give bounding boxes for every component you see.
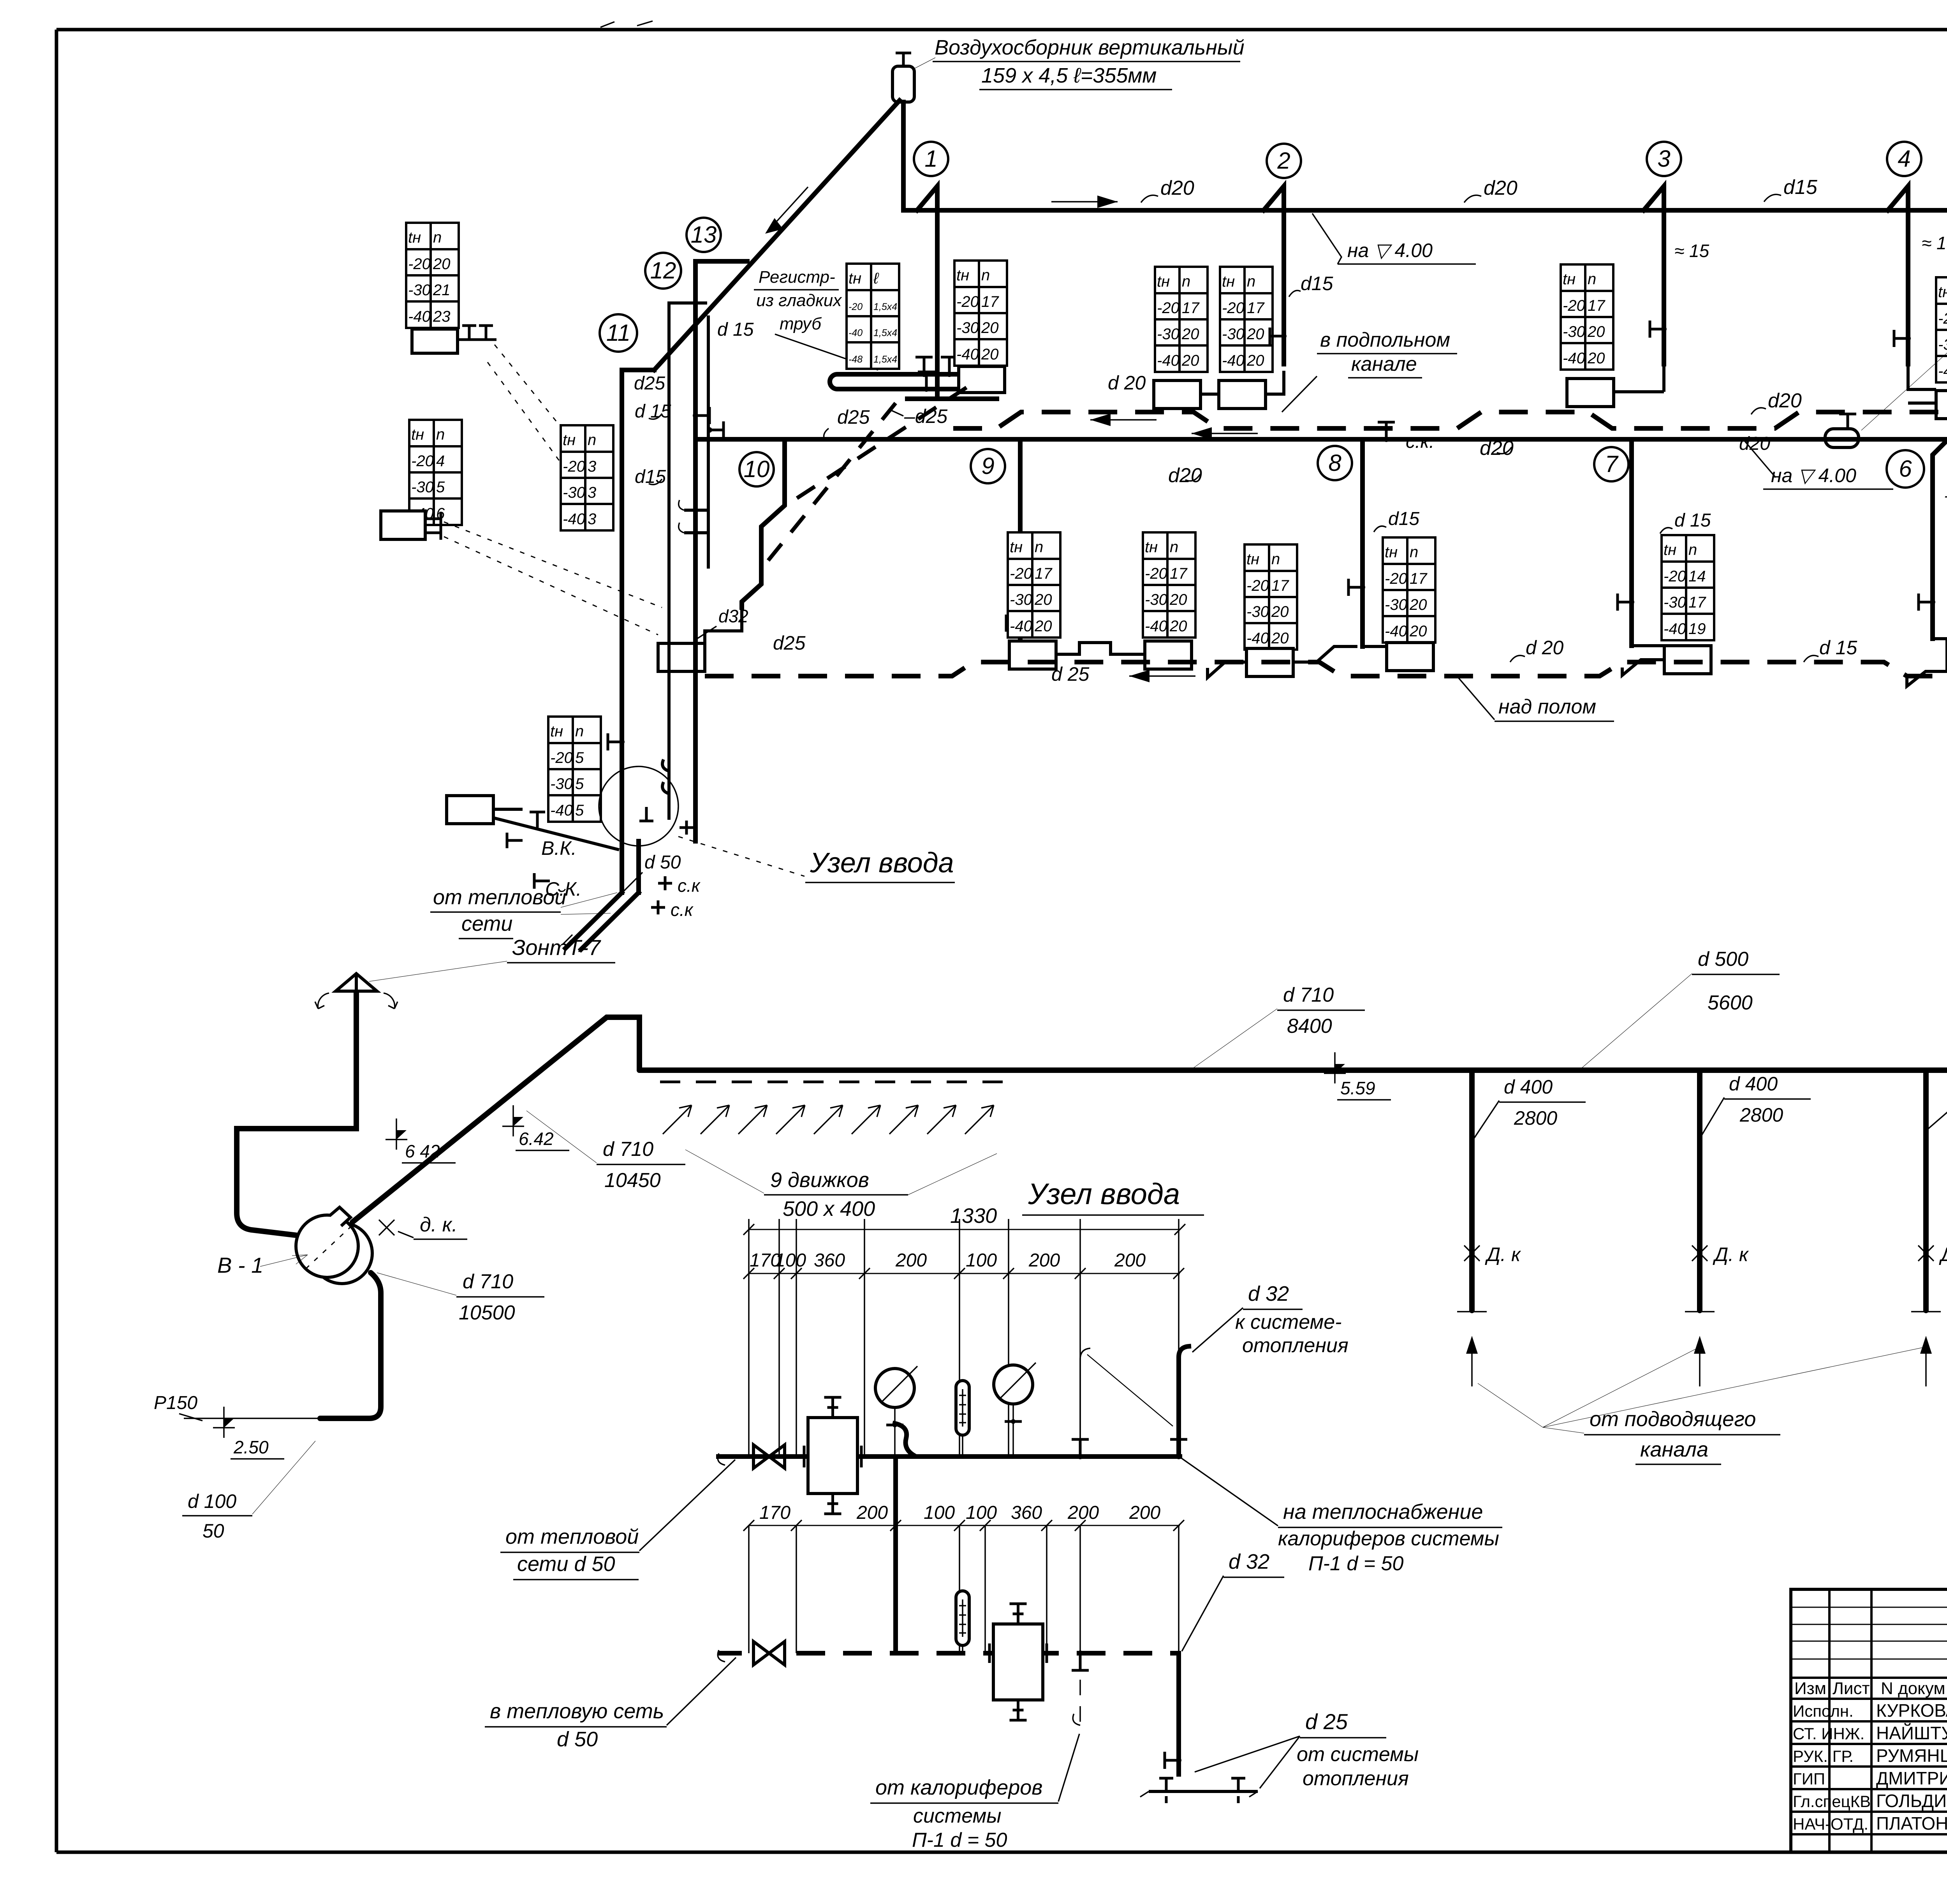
svg-text:n: n	[575, 723, 584, 740]
riser 10 pipe	[742, 439, 785, 608]
svg-text:17: 17	[1688, 594, 1706, 611]
svg-text:Узел ввода: Узел ввода	[1028, 1178, 1180, 1211]
svg-text:d 710: d 710	[603, 1138, 653, 1161]
svg-text:14: 14	[1688, 568, 1706, 585]
fan discharge duct down	[320, 1273, 381, 1418]
svg-text:от подводящего: от подводящего	[1590, 1407, 1756, 1431]
svg-text:19: 19	[1688, 620, 1706, 638]
riser pair of input node	[622, 261, 747, 841]
svg-text:20: 20	[1181, 352, 1199, 369]
thermometer	[956, 1381, 969, 1435]
svg-text:n: n	[981, 267, 990, 284]
pressure gauge	[994, 1365, 1033, 1404]
svg-text:5.59: 5.59	[1340, 1078, 1375, 1098]
svg-text:-20: -20	[1145, 565, 1167, 582]
svg-text:tн: tн	[956, 267, 969, 284]
svg-text:20: 20	[1034, 591, 1052, 608]
svg-text:-20: -20	[1938, 310, 1947, 327]
svg-text:-40: -40	[1563, 350, 1585, 367]
svg-text:5: 5	[575, 749, 584, 766]
main horizontal duct	[639, 1070, 1947, 1087]
table riser 2 left	[1155, 267, 1208, 372]
svg-text:8: 8	[1328, 450, 1341, 476]
dimension chain 1330	[749, 1229, 1180, 1230]
svg-text:d 15: d 15	[1819, 637, 1857, 659]
svg-text:сети d 50: сети d 50	[517, 1552, 615, 1576]
valve	[1170, 1439, 1187, 1457]
svg-text:17: 17	[981, 293, 999, 310]
inner riser d15	[684, 315, 708, 569]
svg-text:к системе-: к системе-	[1235, 1311, 1341, 1333]
svg-text:5: 5	[575, 775, 584, 793]
svg-text:-30: -30	[1145, 591, 1167, 608]
svg-text:с.к: с.к	[671, 900, 694, 920]
damper (д.к)	[1464, 1245, 1480, 1261]
radiator branch 12	[381, 511, 425, 539]
nine slot arrows	[663, 1105, 692, 1134]
table riser 3	[1561, 264, 1613, 370]
radiator taps	[425, 512, 441, 540]
inner riser d25	[669, 303, 707, 820]
svg-text:159 х 4,5 ℓ=355мм: 159 х 4,5 ℓ=355мм	[981, 64, 1157, 87]
riser 1 lower part and return	[907, 210, 997, 399]
svg-text:Изм: Изм	[1794, 1679, 1826, 1698]
radiator riser 2 left	[1154, 380, 1201, 409]
svg-text:-20: -20	[563, 458, 585, 475]
title block	[1791, 1589, 1947, 1852]
svg-text:6: 6	[1899, 456, 1912, 482]
floor-level return pipe (dashed, над полом)	[705, 662, 1947, 676]
svg-text:-30: -30	[550, 775, 573, 793]
svg-text:17: 17	[1247, 299, 1265, 317]
radiator riser 1	[959, 366, 1005, 393]
svg-text:калориферов системы: калориферов системы	[1278, 1527, 1499, 1550]
valve	[918, 372, 935, 389]
svg-text:1,5х4: 1,5х4	[873, 354, 897, 365]
svg-text:Исполн.: Исполн.	[1793, 1702, 1854, 1720]
valve	[941, 357, 958, 374]
svg-text:20: 20	[1587, 350, 1605, 367]
svg-text:– d 15: – d 15	[1945, 485, 1947, 506]
svg-text:d15: d15	[1783, 176, 1818, 199]
svg-text:tн: tн	[849, 270, 861, 287]
svg-text:Воздухосборник вертикальный: Воздухосборник вертикальный	[935, 36, 1245, 59]
svg-text:20: 20	[433, 255, 451, 273]
svg-text:20: 20	[1246, 352, 1264, 369]
svg-text:-40: -40	[1385, 623, 1407, 640]
riser circle 1	[914, 142, 948, 176]
svg-text:20: 20	[1271, 603, 1289, 620]
svg-text:10500: 10500	[459, 1302, 515, 1324]
svg-text:20: 20	[1409, 623, 1427, 640]
svg-text:с.к: с.к	[678, 875, 701, 896]
umbrella Zont T-7	[336, 973, 377, 992]
main supply pipe d20	[903, 102, 1947, 210]
svg-text:8400: 8400	[1287, 1015, 1332, 1037]
svg-text:tн: tн	[1246, 551, 1259, 568]
svg-text:13: 13	[691, 222, 717, 248]
svg-text:отопления: отопления	[1242, 1334, 1348, 1357]
valve	[1919, 594, 1933, 611]
radiator riser 3	[1567, 379, 1614, 407]
svg-text:3: 3	[588, 511, 596, 528]
riser circle 6	[1887, 450, 1924, 488]
svg-text:17: 17	[1588, 297, 1605, 314]
riser 8 pipe	[1360, 439, 1365, 646]
valve	[709, 421, 724, 439]
svg-text:d20: d20	[1739, 433, 1770, 454]
svg-text:100: 100	[775, 1250, 806, 1271]
svg-text:d 20: d 20	[1526, 637, 1564, 659]
riser 7 pipe	[1629, 439, 1634, 646]
supply line of input node	[718, 1454, 1180, 1459]
inclined duct	[352, 1017, 639, 1222]
duct drop 1 d400	[1469, 1073, 1475, 1310]
svg-text:1330: 1330	[950, 1204, 997, 1228]
supply arrow into drop 2	[1699, 1343, 1701, 1386]
table riser 9	[1008, 532, 1060, 638]
valve	[608, 733, 622, 750]
svg-text:n: n	[1182, 273, 1190, 290]
svg-text:d 20: d 20	[1108, 372, 1146, 394]
svg-text:ГИП: ГИП	[1793, 1770, 1825, 1788]
svg-text:-40: -40	[1222, 352, 1245, 369]
svg-text:-40: -40	[1664, 620, 1686, 638]
svg-text:2.50: 2.50	[233, 1437, 269, 1457]
riser circle 8	[1318, 446, 1352, 480]
svg-text:от калориферов: от калориферов	[875, 1776, 1043, 1799]
riser circle 9	[971, 449, 1005, 483]
svg-text:n: n	[1247, 273, 1255, 290]
table branch 12	[409, 420, 462, 525]
riser 9 pipe	[1018, 439, 1023, 641]
svg-text:5600: 5600	[1708, 992, 1753, 1014]
svg-text:-30: -30	[956, 319, 979, 336]
damper (д.к)	[379, 1220, 394, 1235]
svg-text:сети: сети	[461, 912, 512, 935]
riser 8 links	[1208, 646, 1387, 678]
table riser 1	[954, 261, 1007, 366]
svg-text:Д. к: Д. к	[1713, 1244, 1749, 1265]
table riser 7	[1662, 535, 1714, 640]
svg-text:-20: -20	[408, 255, 431, 273]
svg-text:n: n	[1170, 539, 1178, 556]
table riser 9 right	[1143, 532, 1195, 638]
svg-text:-20: -20	[956, 293, 979, 310]
small c hooks	[679, 500, 684, 533]
svg-text:n: n	[433, 229, 442, 246]
valve	[1072, 1653, 1089, 1670]
supply arrow into drop 3	[1925, 1343, 1927, 1386]
svg-text:-20: -20	[1246, 577, 1269, 594]
table riser 8 right	[1383, 537, 1435, 643]
svg-text:ДМИТРИЕВА: ДМИТРИЕВА	[1876, 1768, 1947, 1788]
svg-text:Регистр-: Регистр-	[759, 268, 835, 287]
pressure gauge	[875, 1369, 914, 1407]
svg-text:tн: tн	[1222, 273, 1235, 290]
damper (д.к)	[1918, 1245, 1934, 1261]
svg-text:НАЙШТУТ: НАЙШТУТ	[1876, 1723, 1947, 1743]
svg-text:Гл.спецКВ: Гл.спецКВ	[1793, 1792, 1871, 1811]
supply arrow into drop 1	[1471, 1343, 1473, 1386]
register U-pipe of smooth tubes	[830, 374, 959, 389]
svg-text:2: 2	[1277, 148, 1290, 174]
svg-text:-40: -40	[408, 308, 431, 325]
table riser 2 right	[1220, 267, 1273, 372]
svg-text:РУК. ГР.: РУК. ГР.	[1793, 1747, 1854, 1765]
svg-text:НАЧ-ОТД.: НАЧ-ОТД.	[1793, 1815, 1868, 1833]
svg-text:отопления: отопления	[1303, 1767, 1409, 1790]
svg-text:-20: -20	[1563, 297, 1585, 314]
svg-text:на теплоснабжение: на теплоснабжение	[1283, 1500, 1483, 1524]
svg-text:-40: -40	[1246, 630, 1269, 647]
radiator link riser 3	[1614, 366, 1664, 392]
exhaust stack duct	[237, 992, 356, 1235]
riser 2 connection	[1264, 186, 1284, 364]
svg-text:на ▽ 4.00: на ▽ 4.00	[1347, 240, 1433, 261]
table register	[847, 264, 899, 369]
riser circle 2	[1267, 144, 1301, 178]
svg-text:tн: tн	[1385, 544, 1398, 561]
svg-text:d 25: d 25	[1051, 663, 1090, 685]
svg-text:-30: -30	[411, 479, 434, 496]
svg-text:d 400: d 400	[1729, 1073, 1778, 1095]
bypass S-curl at gauge connection	[895, 1423, 914, 1455]
svg-text:Лист: Лист	[1833, 1679, 1870, 1698]
svg-text:-30: -30	[1222, 326, 1245, 343]
svg-text:d20: d20	[1484, 177, 1517, 199]
svg-text:ГОЛЬДИН: ГОЛЬДИН	[1876, 1791, 1947, 1811]
svg-text:20: 20	[1271, 630, 1289, 647]
vertical link pipe	[893, 1457, 898, 1653]
svg-text:канала: канала	[1640, 1438, 1708, 1461]
svg-text:2800: 2800	[1739, 1104, 1783, 1126]
riser 1 connection	[917, 186, 937, 364]
riser 10 to radiator	[705, 608, 742, 643]
valve	[1348, 579, 1363, 596]
svg-text:20: 20	[1409, 596, 1427, 613]
svg-text:ℓ: ℓ	[873, 270, 879, 287]
svg-text:на ▽ 4.00: на ▽ 4.00	[1771, 465, 1856, 486]
svg-text:12: 12	[650, 257, 676, 284]
svg-text:Узел ввода: Узел ввода	[810, 847, 954, 879]
radiator links riser 2	[1201, 371, 1284, 394]
svg-text:9: 9	[981, 453, 994, 479]
svg-text:3: 3	[588, 458, 596, 475]
dimension chain segments	[749, 1273, 1180, 1274]
svg-text:-30: -30	[1246, 603, 1269, 620]
svg-text:-40: -40	[849, 328, 863, 338]
svg-text:500 х 400: 500 х 400	[783, 1197, 875, 1221]
svg-text:d 400: d 400	[1504, 1076, 1553, 1098]
thermometer	[956, 1591, 969, 1645]
svg-text:-20: -20	[1385, 570, 1407, 587]
svg-text:ЗонтТ-7: ЗонтТ-7	[512, 935, 601, 960]
svg-text:200: 200	[1129, 1502, 1160, 1523]
svg-text:n: n	[1271, 551, 1280, 568]
riser to heating system	[1179, 1346, 1189, 1457]
svg-text:tн: tн	[563, 432, 576, 449]
svg-text:РУМЯНЦЕВА: РУМЯНЦЕВА	[1876, 1745, 1947, 1766]
gate valve	[753, 1445, 785, 1468]
dashed leaders to risers	[488, 345, 607, 506]
duct drop 3 d400	[1923, 1073, 1929, 1310]
radiator riser 2 right	[1219, 380, 1266, 409]
svg-text:-40: -40	[550, 802, 573, 819]
riser circle 11	[600, 314, 637, 352]
svg-text:-40: -40	[1010, 618, 1032, 635]
svg-text:23: 23	[433, 308, 451, 325]
svg-text:канале: канале	[1351, 353, 1417, 375]
svg-text:10450: 10450	[604, 1169, 661, 1192]
svg-text:d 32: d 32	[1248, 1282, 1289, 1305]
svg-text:20: 20	[981, 346, 999, 363]
valve	[1618, 594, 1632, 611]
svg-text:-40: -40	[956, 346, 979, 363]
svg-text:17: 17	[1035, 565, 1053, 582]
table riser 8 left	[1245, 544, 1297, 650]
svg-text:d 50: d 50	[557, 1728, 598, 1751]
svg-text:21: 21	[433, 282, 451, 299]
svg-text:n: n	[436, 426, 445, 443]
riser circle 10	[739, 452, 774, 486]
svg-text:от тепловой: от тепловой	[433, 886, 566, 909]
valve	[1006, 615, 1020, 632]
lower main pipe (supply to ground floor)	[695, 439, 1947, 639]
svg-text:5: 5	[575, 802, 584, 819]
louvre slots	[660, 1081, 1009, 1083]
svg-text:в подпольном: в подпольном	[1320, 329, 1450, 351]
svg-text:tн: tн	[1145, 539, 1158, 556]
svg-text:20: 20	[1246, 326, 1264, 343]
svg-text:200: 200	[895, 1250, 927, 1271]
svg-text:2800: 2800	[1514, 1107, 1557, 1129]
svg-text:1: 1	[924, 146, 937, 172]
svg-text:над полом: над полом	[1498, 696, 1596, 718]
dashed branch d25 lower	[766, 403, 896, 563]
svg-text:1,5х4: 1,5х4	[873, 301, 897, 312]
elevation 6.42 incline	[502, 1105, 524, 1136]
svg-text:20: 20	[1169, 618, 1187, 635]
svg-text:-30: -30	[1157, 326, 1179, 343]
svg-text:-20: -20	[550, 749, 573, 766]
svg-text:tн: tн	[1664, 541, 1676, 558]
flow arrow	[1051, 201, 1118, 203]
valve	[1165, 1752, 1179, 1769]
elevation 2.50	[213, 1407, 235, 1438]
svg-text:труб: труб	[780, 314, 822, 333]
svg-text:в тепловую сеть: в тепловую сеть	[490, 1700, 664, 1723]
d50 pipes to heat network	[565, 893, 639, 949]
svg-text:КУРКОВА: КУРКОВА	[1876, 1700, 1947, 1721]
svg-text:17: 17	[1271, 577, 1289, 594]
svg-text:tн: tн	[1157, 273, 1170, 290]
svg-text:д. к.: д. к.	[420, 1214, 458, 1236]
VK tap	[507, 812, 545, 848]
riser 6 link	[1907, 639, 1947, 686]
valve	[915, 357, 933, 374]
svg-text:d25: d25	[837, 406, 870, 428]
riser circle 12	[645, 253, 681, 289]
svg-text:-40: -40	[1938, 363, 1947, 380]
elevation 6.42	[386, 1118, 407, 1150]
svg-text:17: 17	[1170, 565, 1188, 582]
svg-text:-20: -20	[1222, 299, 1245, 317]
svg-text:100: 100	[966, 1502, 997, 1523]
vertical air collector	[893, 66, 914, 102]
drop to heat network	[622, 841, 639, 893]
svg-text:–d25: –d25	[904, 405, 947, 427]
svg-text:200: 200	[856, 1502, 888, 1523]
svg-text:200: 200	[1067, 1502, 1099, 1523]
svg-text:tн: tн	[411, 426, 424, 443]
sk taps on d50	[651, 876, 672, 914]
svg-text:360: 360	[1011, 1502, 1042, 1523]
svg-text:-20: -20	[411, 453, 434, 470]
svg-text:-40: -40	[563, 511, 585, 528]
fan B-1 scroll	[312, 1223, 372, 1284]
riser 3 connection	[1644, 186, 1664, 364]
svg-text:4: 4	[436, 453, 445, 470]
radiator taps	[458, 326, 496, 340]
svg-text:d 710: d 710	[1283, 984, 1334, 1006]
radiator riser 9	[1009, 641, 1056, 669]
svg-text:20: 20	[1169, 591, 1187, 608]
svg-text:3: 3	[1657, 146, 1670, 172]
svg-text:4: 4	[1898, 146, 1910, 172]
radiator riser 8 left	[1246, 648, 1293, 676]
svg-text:-48: -48	[849, 354, 863, 365]
return drop to d32	[1176, 1653, 1181, 1774]
svg-text:d 15: d 15	[1674, 510, 1711, 531]
riser 4 connection	[1888, 186, 1908, 364]
svg-text:200: 200	[1114, 1250, 1146, 1271]
svg-text:100: 100	[924, 1502, 955, 1523]
heat exchanger	[808, 1418, 857, 1494]
svg-text:n: n	[1588, 271, 1596, 288]
svg-text:7: 7	[1605, 451, 1619, 477]
svg-text:d 100: d 100	[188, 1490, 236, 1512]
SK tap	[534, 873, 550, 889]
pen marks on top border	[600, 21, 653, 27]
svg-text:11: 11	[606, 320, 630, 346]
svg-text:СТ. ИНЖ.: СТ. ИНЖ.	[1793, 1724, 1864, 1743]
riser 7 link	[1622, 646, 1664, 675]
svg-text:d25: d25	[773, 632, 806, 654]
riser 9 link	[1056, 643, 1145, 654]
svg-text:d20: d20	[1480, 437, 1514, 460]
dimension chain lower	[749, 1525, 1180, 1526]
svg-text:-20: -20	[849, 301, 863, 312]
radiator riser 7	[1664, 646, 1711, 674]
svg-text:d20: d20	[1768, 389, 1802, 412]
svg-text:-30: -30	[408, 282, 431, 299]
svg-text:системы: системы	[913, 1805, 1001, 1827]
svg-text:d 50: d 50	[644, 852, 681, 873]
svg-text:tн: tн	[550, 723, 563, 740]
svg-text:-30: -30	[1563, 323, 1585, 340]
svg-text:-40: -40	[1157, 352, 1179, 369]
svg-text:3: 3	[588, 484, 596, 501]
svg-text:d25: d25	[634, 373, 665, 394]
radiator riser 8 right	[1387, 643, 1433, 671]
radiator input	[447, 796, 493, 824]
svg-text:20: 20	[1587, 323, 1605, 340]
radiator link riser 4	[1908, 364, 1936, 403]
assembly pipes	[662, 759, 669, 820]
svg-text:с.к.: с.к.	[1406, 432, 1434, 452]
gate valve	[753, 1642, 785, 1665]
